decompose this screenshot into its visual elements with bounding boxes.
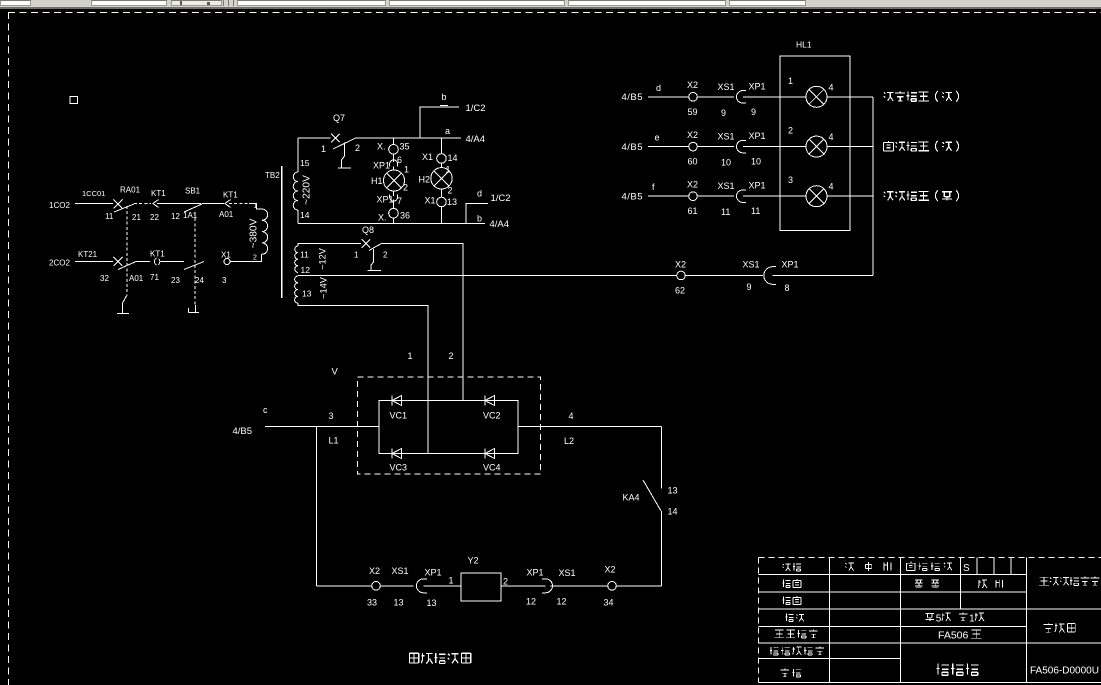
indicator lamp row 2 <box>806 136 827 157</box>
wire node d riser <box>466 203 488 223</box>
svg-text:12: 12 <box>171 212 180 221</box>
svg-text:d: d <box>656 83 661 93</box>
toolbar field 3 <box>171 0 222 6</box>
wire contact to switch SB1 <box>157 203 201 205</box>
svg-text:4/B5: 4/B5 <box>622 191 644 202</box>
title cell bi li <box>978 580 987 588</box>
wire tap13 to bridge input 1 <box>298 303 428 454</box>
svg-text:X2: X2 <box>675 260 686 270</box>
application toolbar sliver <box>0 0 1101 9</box>
svg-text:4: 4 <box>829 182 834 192</box>
wire lamp to bus row 3 <box>827 195 873 197</box>
terminal X2-60 circle <box>689 142 698 151</box>
terminal X. lower circle H1 <box>389 208 399 218</box>
terminal X1 upper circle H2 <box>437 154 447 164</box>
svg-text:XS1: XS1 <box>743 260 760 270</box>
svg-text:b: b <box>442 92 447 102</box>
svg-text:VC2: VC2 <box>483 411 501 421</box>
svg-text:a: a <box>445 126 450 136</box>
svg-text:H1: H1 <box>371 176 383 186</box>
svg-text:12: 12 <box>301 265 311 275</box>
svg-text:XP1: XP1 <box>373 161 390 171</box>
wire to contact KT1 second <box>202 203 224 205</box>
svg-text:XP1: XP1 <box>377 195 394 205</box>
wire lamp H1 to XP1 lower <box>393 191 395 196</box>
svg-text:1: 1 <box>788 76 793 86</box>
page margin dashed border top <box>8 12 1101 14</box>
transformer core <box>281 166 283 298</box>
svg-text:1: 1 <box>321 144 326 154</box>
svg-text:32: 32 <box>100 274 109 283</box>
title block left border dashed <box>758 558 760 683</box>
breaker Q8 blade <box>369 244 381 251</box>
wire H1 branch upper <box>393 138 395 145</box>
svg-text:XP1: XP1 <box>749 131 766 141</box>
svg-text:~12V: ~12V <box>318 247 328 270</box>
svg-text:VC1: VC1 <box>390 411 408 421</box>
svg-text:1/C2: 1/C2 <box>466 103 486 114</box>
svg-text:1CC01: 1CC01 <box>82 189 105 198</box>
svg-text:2: 2 <box>253 255 257 262</box>
wire lamp to bus row 2 <box>827 146 873 148</box>
svg-text:d: d <box>477 189 482 199</box>
diode VC4 <box>484 449 486 459</box>
secondary winding ~12V <box>295 246 298 272</box>
svg-text:FA506-D0000U: FA506-D0000U <box>1030 666 1099 677</box>
svg-text:11: 11 <box>300 250 309 260</box>
title block row line 6 <box>759 658 901 660</box>
svg-text:V: V <box>332 367 339 378</box>
svg-text:VC3: VC3 <box>390 463 408 473</box>
svg-text:A01: A01 <box>129 274 144 283</box>
svg-text:13: 13 <box>302 289 312 299</box>
svg-text:XS1: XS1 <box>559 568 576 578</box>
transformer primary winding ~380V <box>262 209 268 254</box>
svg-text:1: 1 <box>408 351 413 361</box>
svg-text:1: 1 <box>449 576 454 586</box>
svg-text:5: 5 <box>936 614 942 625</box>
lamp H1 <box>384 170 405 191</box>
wire H2 branch upper <box>441 138 443 154</box>
svg-text:A01: A01 <box>219 210 234 219</box>
page margin dashed border left <box>8 12 10 685</box>
svg-text:33: 33 <box>367 598 377 608</box>
svg-text:KT1: KT1 <box>151 189 166 198</box>
wire 4/B5 to bridge left <box>265 426 379 428</box>
svg-text:L1: L1 <box>329 436 339 446</box>
svg-text:2: 2 <box>383 251 388 260</box>
title cell zhong liang <box>915 580 923 588</box>
wire X2-62 to XS1 <box>685 275 763 277</box>
mechanical linkage dashed line 2 <box>194 213 196 305</box>
wire 4/B5 feed row 3 <box>648 195 689 197</box>
lower contact socket <box>154 258 159 265</box>
toolbar separator 3 <box>233 0 234 6</box>
wire bridge right lead <box>518 426 662 428</box>
wire 1CO2 to switch SA01 <box>75 203 113 205</box>
svg-text:1: 1 <box>404 165 409 175</box>
svg-text:KT21: KT21 <box>78 250 98 259</box>
terminal X. upper circle H1 <box>389 145 399 155</box>
contact KT1 chevron <box>153 200 159 208</box>
connector XS1 row 3 <box>737 190 747 202</box>
wire to lower contact <box>136 261 150 263</box>
title block row line 3 <box>759 608 1101 610</box>
rectifier inner rectangle <box>379 401 518 454</box>
indicator bus right <box>872 97 874 276</box>
title block top border dashed <box>759 557 1101 559</box>
svg-text:10: 10 <box>721 158 731 168</box>
wire hook into primary winding top <box>249 204 262 210</box>
layout marker square <box>70 97 78 104</box>
svg-text:21: 21 <box>132 213 141 222</box>
title block column line 2 <box>900 558 902 683</box>
breaker Q8 cross <box>362 239 371 248</box>
caption row 2 <box>884 141 894 151</box>
svg-text:9: 9 <box>747 282 752 292</box>
wire X2 to XS1 row 2 <box>697 146 734 148</box>
svg-text:2: 2 <box>503 577 508 587</box>
title block column line 3 <box>960 558 962 609</box>
contact KT1 second chevron <box>225 200 231 208</box>
connector XS1 62 row <box>764 267 776 285</box>
title cell wuhan textile university <box>1039 577 1049 585</box>
wire X. to XP1 connector H1 <box>393 154 395 162</box>
svg-text:1/C2: 1/C2 <box>491 193 511 204</box>
toolbar field 2 <box>91 0 167 6</box>
breaker Q7 cross <box>331 134 340 143</box>
title cell gong yi jian cha <box>775 630 784 638</box>
wire X2 to XS1 row 1 <box>697 96 734 98</box>
svg-text:62: 62 <box>675 286 685 296</box>
title cell she ji <box>783 564 791 571</box>
svg-text:X2: X2 <box>687 80 698 90</box>
wire X2-34 to KA4 branch <box>616 585 661 587</box>
svg-text:4: 4 <box>829 82 834 92</box>
wire X1 to primary winding bottom <box>230 254 262 262</box>
svg-text:Y2: Y2 <box>468 556 479 566</box>
svg-text:X.: X. <box>378 213 387 223</box>
toolbar separator 1 <box>223 0 224 6</box>
svg-text:X2: X2 <box>687 179 698 189</box>
svg-text:34: 34 <box>604 598 614 608</box>
wire 4/B5 feed row 1 <box>648 96 689 98</box>
title block row line 2 <box>759 591 1027 593</box>
svg-text:VC4: VC4 <box>483 463 501 473</box>
svg-text:2CO2: 2CO2 <box>49 259 70 268</box>
Q8 trip mechanism <box>368 249 382 271</box>
terminal X2-61 circle <box>689 192 698 201</box>
secondary winding ~220V <box>293 172 298 210</box>
title cell bian ya qi <box>1044 623 1054 632</box>
toolbar glyph mu <box>180 1 182 5</box>
wire lamp to bus row 1 <box>827 96 873 98</box>
svg-text:X.: X. <box>377 142 386 152</box>
toolbar field 1 <box>0 0 31 6</box>
switch SB1 blade <box>184 204 202 212</box>
brake Y2 box <box>461 573 501 601</box>
svg-text:X1: X1 <box>425 196 436 206</box>
toolbar separator 2 <box>228 0 229 6</box>
svg-text:22: 22 <box>150 213 159 222</box>
svg-text:8: 8 <box>785 283 790 293</box>
svg-text:13: 13 <box>427 598 437 608</box>
svg-text:XP1: XP1 <box>527 568 544 578</box>
mechanical linkage dashed line 1 <box>126 206 128 295</box>
lower switch blade 2 <box>184 262 204 270</box>
svg-text:XS1: XS1 <box>718 132 735 142</box>
switch SA01 blade <box>114 204 134 212</box>
connector XS1 brake right <box>542 579 553 593</box>
svg-text:3: 3 <box>329 411 334 421</box>
svg-text:Q8: Q8 <box>362 225 374 235</box>
wire lamp H2 to X1 lower <box>441 189 443 197</box>
svg-text:XP1: XP1 <box>425 568 442 578</box>
dashed wire to contact KT1 <box>134 203 151 205</box>
bottom bus wire b 4/A4 <box>298 223 485 225</box>
connector XS1 row 2 <box>737 140 747 152</box>
indicator lamp row 1 <box>806 86 827 107</box>
title block row line 4 <box>759 625 1027 627</box>
svg-text:4: 4 <box>569 411 574 421</box>
wire left to X2-33 <box>317 585 372 587</box>
svg-text:23: 23 <box>171 276 180 285</box>
svg-text:1CO2: 1CO2 <box>49 201 70 210</box>
svg-text:X2: X2 <box>605 565 616 575</box>
svg-text:11: 11 <box>751 206 760 216</box>
lower switch cross <box>114 257 123 266</box>
svg-text:KT1: KT1 <box>223 191 238 200</box>
diode VC3 <box>391 449 393 459</box>
wire 4/B5 feed row 2 <box>648 146 689 148</box>
rectifier dashed enclosure <box>358 377 541 474</box>
toolbar field 6 <box>568 0 726 6</box>
title cell zhi tu <box>782 580 790 588</box>
wire tap12 line to connector row <box>298 275 677 277</box>
terminal X2-62 circle <box>677 271 686 280</box>
svg-text:XP1: XP1 <box>782 260 799 270</box>
svg-text:36: 36 <box>400 211 410 221</box>
svg-text:4/B5: 4/B5 <box>233 426 253 437</box>
title block column line 1 <box>829 558 831 683</box>
title block small cell line a <box>976 558 978 575</box>
svg-text:~14V: ~14V <box>319 276 329 299</box>
terminal X1 circle <box>224 259 230 265</box>
wire node b riser <box>420 107 459 138</box>
wire XS1 to X2-34 <box>551 585 608 587</box>
svg-text:3: 3 <box>222 276 227 285</box>
svg-text:TB2: TB2 <box>265 171 280 180</box>
caption dan pian zhi dong qi <box>410 653 419 663</box>
caption row 1 <box>884 93 894 101</box>
svg-text:13: 13 <box>668 486 678 496</box>
svg-text:2: 2 <box>448 185 453 195</box>
svg-text:4: 4 <box>829 132 834 142</box>
svg-text:1: 1 <box>354 251 359 260</box>
svg-text:f: f <box>652 182 655 192</box>
svg-text:XP1: XP1 <box>749 81 766 91</box>
svg-text:~380V: ~380V <box>249 218 260 248</box>
svg-text:4/A4: 4/A4 <box>466 134 486 145</box>
svg-text:L2: L2 <box>564 436 574 446</box>
wire XP1 to lamp H1 <box>393 167 395 171</box>
diode VC2 <box>484 396 486 406</box>
connector XP1 upper H1 <box>390 160 398 167</box>
secondary winding ~14V <box>295 276 298 303</box>
svg-text:11: 11 <box>105 212 114 221</box>
svg-text:59: 59 <box>688 107 698 117</box>
svg-text:12: 12 <box>526 597 536 607</box>
wire bridge to KA4 <box>661 427 663 489</box>
svg-text:11: 11 <box>721 207 730 217</box>
title block small cell line c <box>1010 558 1012 575</box>
svg-text:XS1: XS1 <box>392 566 409 576</box>
caption row 3 <box>884 192 894 201</box>
lower switch blade 1 <box>118 262 136 270</box>
svg-text:1: 1 <box>254 203 258 210</box>
svg-text:3: 3 <box>788 175 793 185</box>
wire tick at node b <box>440 105 448 107</box>
terminal X2-59 circle <box>689 93 698 102</box>
diode VC1 <box>391 396 393 406</box>
manual operator symbol 2 <box>189 305 200 313</box>
svg-text:H2: H2 <box>419 174 431 184</box>
wire Y2 to XP1 right <box>501 585 546 587</box>
title cell biao zhun hua jian cha <box>770 647 779 655</box>
svg-text:XS1: XS1 <box>718 181 735 191</box>
svg-text:X1: X1 <box>422 152 433 162</box>
svg-text:2: 2 <box>355 143 360 153</box>
wire X. to bottom bus H1 <box>393 218 395 224</box>
svg-text:24: 24 <box>195 276 204 285</box>
toolbar field 4 <box>237 0 386 6</box>
svg-text:SB1: SB1 <box>185 187 201 196</box>
svg-text:1A1: 1A1 <box>183 211 198 220</box>
title cell xi sha ji <box>936 664 948 676</box>
svg-text:c: c <box>263 405 268 415</box>
wire X1 to lamp H2 <box>441 163 443 167</box>
wire XP1 to lamp row 3 <box>743 195 806 197</box>
svg-text:b: b <box>477 214 482 224</box>
svg-text:2: 2 <box>403 183 408 193</box>
toolbar glyph dot <box>207 2 210 5</box>
svg-text:XS1: XS1 <box>718 82 735 92</box>
wire 2CO2 to switch <box>75 261 113 263</box>
toolbar field 7 <box>729 0 806 6</box>
svg-text:KA4: KA4 <box>623 493 640 503</box>
title cell shi shi peng <box>845 563 854 571</box>
indicator lamp row 3 <box>806 186 827 207</box>
toolbar field 5 <box>389 0 565 6</box>
wire XP1 to Y2 <box>424 585 462 587</box>
title cell jiao dui <box>785 614 793 622</box>
wire 220V winding bottom to bus <box>297 210 299 224</box>
svg-text:9: 9 <box>751 107 756 117</box>
wire 220V top to Q7 cross <box>298 137 331 139</box>
wire contact to blade 2 <box>160 261 184 263</box>
svg-text:1: 1 <box>969 614 975 625</box>
title cell tu yang biao ji <box>907 562 916 571</box>
connector XS1 row 1 <box>737 91 747 103</box>
svg-text:S: S <box>963 563 970 574</box>
svg-text:10: 10 <box>751 157 761 167</box>
svg-text:35: 35 <box>400 142 410 152</box>
title cell gong 5 zhang di 1 zhang <box>926 613 935 621</box>
svg-text:9: 9 <box>721 108 726 118</box>
Q7 trip mechanism <box>338 143 351 169</box>
svg-text:2: 2 <box>449 351 454 361</box>
wire Q8 to bridge input 2 <box>381 244 463 401</box>
terminal X2-33 circle <box>372 582 381 591</box>
title block row line 5 <box>759 642 1101 644</box>
svg-text:12: 12 <box>557 597 567 607</box>
svg-text:X2: X2 <box>369 566 380 576</box>
wire junction down to brake row <box>316 427 318 586</box>
dashed wire to transformer primary top <box>229 203 249 205</box>
svg-text:7: 7 <box>397 196 402 206</box>
wire X2 to XS1 row 3 <box>697 195 734 197</box>
svg-text:e: e <box>655 133 660 143</box>
wire XP1 to X. lower H1 <box>393 200 395 209</box>
svg-text:61: 61 <box>688 206 698 216</box>
title block row line 1 <box>759 573 1027 575</box>
svg-text:FA506: FA506 <box>938 630 969 642</box>
relay contact KA4 blade <box>643 480 661 511</box>
title block bottom border <box>759 682 1101 684</box>
connector XS1 brake left <box>416 579 426 593</box>
wire KA4 to brake row <box>661 511 663 586</box>
title cell shen he <box>781 669 790 677</box>
svg-text:KT1: KT1 <box>150 250 165 259</box>
svg-text:4/B5: 4/B5 <box>622 92 644 103</box>
wire Q7 to node a <box>355 137 461 139</box>
indicator box HL1 <box>780 56 850 231</box>
breaker Q7 blade <box>333 138 355 149</box>
svg-text:2: 2 <box>788 126 793 136</box>
svg-text:XP1: XP1 <box>749 181 766 191</box>
wire XP1 to lamp row 2 <box>743 146 806 148</box>
svg-text:~220V: ~220V <box>302 175 313 205</box>
svg-text:14: 14 <box>300 210 310 220</box>
lamp H2 <box>431 168 452 189</box>
svg-text:60: 60 <box>688 157 698 167</box>
svg-text:71: 71 <box>150 273 159 282</box>
wire 220V winding top to Q7 <box>297 138 299 172</box>
switch SA01 cross <box>114 199 123 208</box>
svg-text:4/A4: 4/A4 <box>490 219 510 230</box>
title block small cell line b <box>993 558 995 575</box>
svg-text:13: 13 <box>447 197 457 207</box>
svg-text:14: 14 <box>668 507 678 517</box>
svg-text:14: 14 <box>448 153 458 163</box>
svg-text:15: 15 <box>300 158 310 168</box>
svg-text:13: 13 <box>394 598 404 608</box>
wire X1 to bottom bus H2 <box>441 207 443 224</box>
svg-text:4/B5: 4/B5 <box>622 142 644 153</box>
wire X2 to XS1 brake <box>380 585 413 587</box>
manual operator symbol 1 <box>117 295 129 314</box>
wire tap11 to Q8 <box>298 244 361 247</box>
title block column line 4 <box>1026 558 1028 683</box>
wire XP1 to lamp row 1 <box>743 96 806 98</box>
terminal X1 lower circle H2 <box>437 197 447 207</box>
connector XP1 lower H1 <box>390 195 398 202</box>
svg-text:HL1: HL1 <box>796 40 812 50</box>
title cell miao tu <box>782 597 790 605</box>
svg-text:X2: X2 <box>687 130 698 140</box>
terminal X2-34 circle <box>608 582 617 591</box>
svg-text:Q7: Q7 <box>333 113 345 123</box>
